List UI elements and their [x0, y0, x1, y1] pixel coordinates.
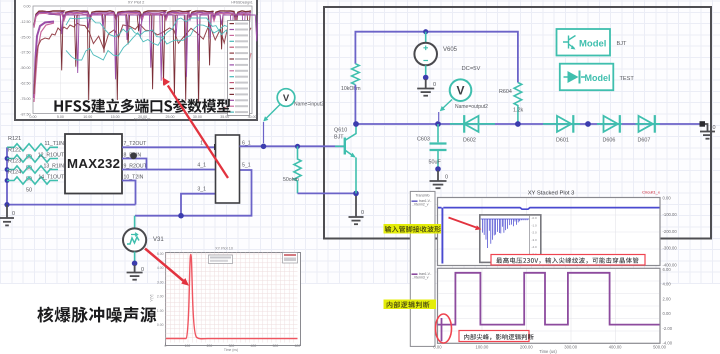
transistor Q610 BJT [334, 126, 356, 193]
resistor 50ohm [283, 146, 301, 193]
internal spike [441, 318, 443, 341]
node: V31 ground dot [132, 261, 138, 267]
wire: 10kOhm to collector rail [354, 85, 356, 124]
diode D601 [543, 115, 580, 143]
noise plot fine grid [166, 253, 298, 343]
red annotation arrow (inset) [449, 218, 482, 231]
XY stacked plot window [400, 180, 720, 354]
noise plot axis labels [150, 247, 301, 353]
wire: R2OUT to S-model pin 4_1 [122, 169, 216, 171]
S-parameter model block X1 [216, 135, 240, 203]
node: bus junction dots [4, 156, 9, 207]
source V31 pulse [123, 228, 164, 251]
wire: top supply rail [355, 32, 518, 83]
resistor R124 50 [7, 169, 58, 193]
wire: T2OUT to S-model pin 1 [122, 146, 216, 148]
ground (C603) [430, 171, 447, 189]
node: rail junction dots [353, 121, 591, 127]
red ellipse annotation [436, 314, 452, 343]
diode D607 [636, 115, 661, 143]
wire: V31 bottom stub [134, 252, 136, 263]
resistor 10kOhm [341, 64, 361, 92]
node: C603 ground dot [435, 166, 441, 172]
ground (V605) [417, 79, 434, 96]
pin labels MAX232 right [124, 141, 148, 180]
pin labels MAX232 left [38, 141, 65, 180]
annotation arrow V31 to noise plot [145, 249, 189, 286]
resistor R123 50 [7, 158, 58, 182]
pin labels S-model [197, 141, 250, 193]
node: V605 rail dot [423, 29, 428, 34]
wire: V605 to ground [425, 65, 427, 77]
x axis labels [433, 345, 666, 354]
received waveform blue trace [438, 208, 660, 210]
nuclear pulse noise plot window [165, 252, 301, 346]
capacitor C603 50uF [417, 124, 447, 168]
ground (diode chain) [700, 121, 706, 127]
node: emitter dot [353, 191, 359, 197]
label: input pin received waveform (yellow, CJK) [384, 224, 442, 234]
wire: V31 bottom rail to 5_1 riser [135, 170, 252, 216]
wire: emitter rail [298, 192, 357, 194]
stacked bottom plot frame [438, 268, 661, 343]
annotation: internal spike red box (CJK) [459, 331, 529, 342]
node: junction dot V31 rail [178, 213, 184, 219]
stacked top plot frame [438, 198, 661, 266]
node: input2 dots [261, 144, 300, 150]
label: internal logic decision (yellow, CJK) [384, 300, 437, 310]
wire: main output rail [356, 123, 703, 125]
resistor R122 50 [7, 147, 58, 171]
bottom plot right axis labels [663, 267, 673, 346]
chart curves [34, 11, 258, 110]
probe arrow output2 [440, 100, 452, 112]
top plot right axis labels [663, 196, 678, 268]
wire: T2IN down to ground rail [122, 181, 136, 205]
noise pulse curve [166, 255, 298, 339]
resistor R604 1.2k [499, 83, 523, 125]
subcircuit sheet border (right circuit) [324, 7, 711, 239]
wire: left resistor bus vertical [7, 147, 136, 204]
wire: V31 top stub [134, 216, 136, 228]
IC U1 MAX232 [65, 134, 122, 194]
HFSS S-parameter chart window [14, 0, 258, 121]
resistor R121 50 [7, 136, 58, 160]
logic square wave [438, 273, 660, 325]
stacked plot legend column [410, 191, 435, 346]
inset spikes [481, 219, 529, 248]
probe stub output2 [438, 112, 440, 121]
source V605 [414, 32, 457, 66]
ground (Q610 emitter) [349, 196, 364, 224]
wire: input2 rail [240, 145, 346, 147]
wire: 3_1 net [181, 194, 216, 216]
model card U-BJT [557, 29, 611, 56]
node: V605 ground dot [423, 75, 429, 81]
inset zoom box [480, 215, 541, 263]
ground (V31) [127, 265, 143, 280]
pin marker R2OUT [130, 152, 137, 159]
chart legend [228, 21, 250, 116]
blue input spike [441, 208, 443, 264]
probe stub input2 [263, 122, 265, 143]
model card U-DIODE [560, 64, 614, 90]
ground (MAX232 resistor bus) [0, 205, 14, 226]
noise legend boxes [209, 255, 233, 264]
wire: R2IN jog [122, 159, 147, 170]
probe arrow input2 [263, 105, 280, 122]
diode D602 [450, 115, 495, 143]
diode D606 [597, 115, 622, 143]
pin terminal square (pin 1 net) [214, 144, 220, 150]
voltmeter probe V output2 [450, 79, 488, 110]
voltmeter probe V input2 [277, 89, 324, 108]
